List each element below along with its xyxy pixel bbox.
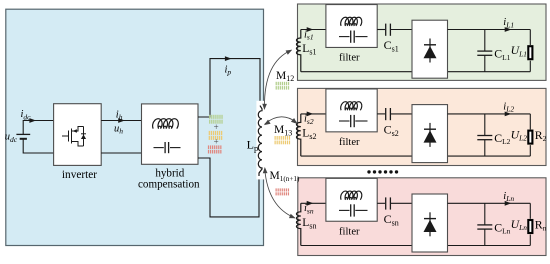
svg-text:compensation: compensation xyxy=(138,178,200,190)
svg-text:filter: filter xyxy=(339,53,360,64)
svg-text:inverter: inverter xyxy=(62,169,97,181)
svg-text:+: + xyxy=(214,137,219,147)
svg-text:+: + xyxy=(214,122,219,132)
svg-text:filter: filter xyxy=(339,137,360,148)
svg-text:filter: filter xyxy=(339,226,360,237)
